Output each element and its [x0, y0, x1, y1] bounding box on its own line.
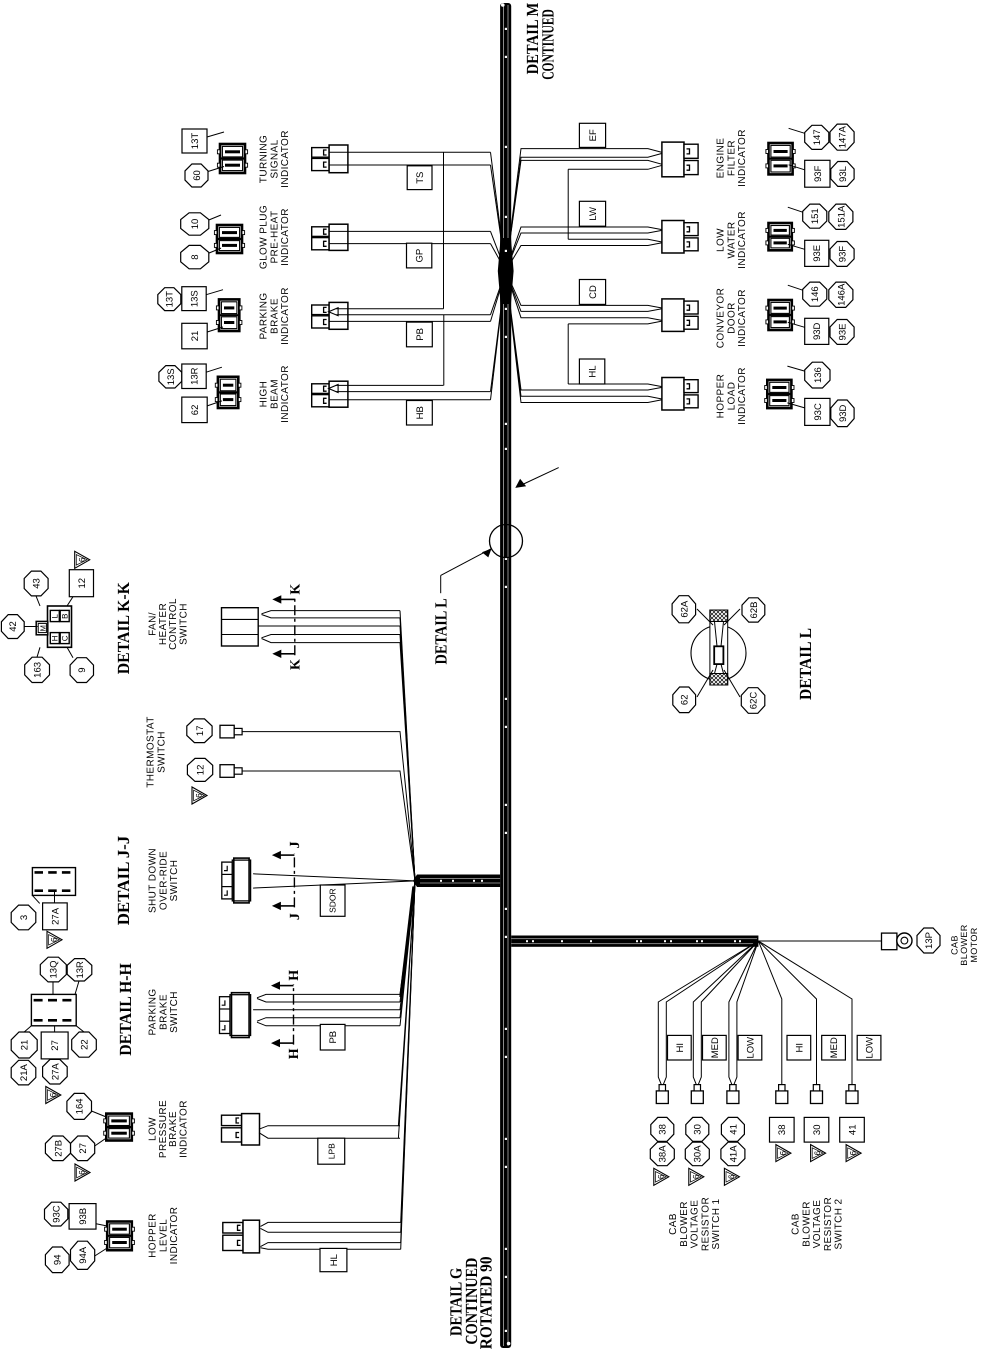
svg-text:LEVEL: LEVEL: [158, 1219, 169, 1252]
svg-text:OVER-RIDE: OVER-RIDE: [158, 851, 169, 910]
leader 22: [76, 1026, 84, 1032]
terminal sw2 LOW: [846, 1085, 858, 1104]
wire main harness trunk: [500, 3, 511, 1348]
box 38 (sw2): [770, 1117, 795, 1142]
box 93C: [805, 398, 830, 425]
leader 43: [36, 596, 40, 606]
svg-text:B: B: [61, 613, 70, 619]
label box MED (sw2 MED): [822, 1035, 846, 1060]
label shut down text: [148, 848, 180, 913]
warning triangle 6 (thermostat): [192, 787, 207, 804]
svg-text:27B: 27B: [53, 1140, 64, 1157]
svg-text:INDICATOR: INDICATOR: [280, 208, 291, 266]
terminal ring cab blower motor: [882, 933, 913, 950]
leader 42 to M: [24, 626, 37, 628]
octagon 17: [187, 719, 212, 743]
label DETAIL L pointer text: [432, 598, 451, 664]
svg-text:27A: 27A: [50, 907, 61, 925]
svg-text:6: 6: [849, 1150, 858, 1155]
connector low pressure brake lead: [222, 1114, 260, 1145]
svg-text:21: 21: [20, 1040, 31, 1051]
section marker H-H: [271, 969, 302, 1059]
leader 163: [37, 647, 40, 657]
connector parking brake switch: [220, 993, 251, 1038]
leader to 136: [787, 366, 804, 371]
leader 62B: [724, 609, 740, 625]
svg-text:CAB: CAB: [668, 1213, 679, 1235]
label cab blower motor text: [949, 924, 979, 966]
svg-text:SWITCH: SWITCH: [156, 731, 167, 773]
octagon 42: [1, 615, 24, 639]
box 62: [182, 397, 207, 423]
wire high beam lead 3: [329, 271, 506, 400]
trunk tape dots: [505, 28, 507, 1332]
svg-text:93E: 93E: [838, 324, 849, 341]
label parking brake ind text: [259, 287, 291, 345]
svg-text:93F: 93F: [838, 246, 849, 263]
label hopper level text: [148, 1207, 180, 1265]
wire SDOR tapered pair: [253, 874, 415, 888]
leader to 13R: [206, 367, 222, 372]
octagon 93D: [831, 400, 854, 427]
octagon 13S: [159, 366, 182, 388]
svg-text:164: 164: [75, 1098, 86, 1114]
connector hopper load lead: [662, 378, 698, 411]
svg-text:BLOWER: BLOWER: [801, 1201, 812, 1247]
svg-text:PRE-HEAT: PRE-HEAT: [269, 210, 280, 263]
leader 62: [697, 670, 713, 697]
wire link CD to HL: [567, 324, 569, 384]
svg-text:6: 6: [50, 937, 59, 942]
octagon 93F: [830, 242, 854, 267]
leader detail L: [441, 549, 492, 594]
svg-text:12: 12: [77, 578, 88, 589]
wire fan lead middle: [258, 626, 415, 881]
svg-text:TURNING: TURNING: [259, 135, 270, 183]
svg-text:EF: EF: [588, 129, 599, 141]
leader to 93C: [787, 403, 804, 408]
svg-text:94A: 94A: [78, 1246, 89, 1264]
svg-text:9: 9: [77, 667, 88, 672]
svg-text:RESISTOR: RESISTOR: [823, 1197, 834, 1251]
terminal sw2 HI: [776, 1085, 788, 1104]
wire hopper load lead 3: [506, 271, 664, 399]
wire cab blower sw1 HI: [658, 941, 758, 1085]
wire thermostat 17: [242, 732, 415, 881]
leader 94: [95, 1248, 108, 1256]
connector K-K switch block rear view: [36, 606, 71, 647]
svg-text:CONTINUED: CONTINUED: [539, 9, 558, 80]
wire hl pair 1: [261, 881, 416, 1232]
svg-text:38: 38: [658, 1124, 669, 1135]
svg-text:163: 163: [33, 662, 44, 678]
svg-text:6: 6: [656, 1174, 665, 1179]
svg-text:ROTATED 90: ROTATED 90: [477, 1257, 496, 1350]
connector engine filter lead: [662, 142, 698, 177]
label DETAIL L: [796, 628, 815, 700]
wire hopper load lead 2: [506, 271, 664, 390]
svg-text:DETAIL K-K: DETAIL K-K: [114, 581, 133, 674]
box 21: [182, 323, 207, 348]
label cab blower switch 1 text: [668, 1197, 722, 1251]
connector low water indicator (panel side): [766, 223, 794, 250]
svg-text:41: 41: [847, 1125, 858, 1136]
svg-text:TS: TS: [415, 172, 426, 184]
warning triangle 6 (K-K): [75, 551, 90, 568]
svg-text:6: 6: [195, 793, 204, 798]
octagon 146A: [829, 282, 853, 307]
leader 12: [67, 597, 73, 606]
label turning signal text: [259, 130, 291, 188]
leader to 93E: [788, 244, 805, 249]
box 30 (sw2): [804, 1117, 829, 1142]
svg-text:PARKING: PARKING: [148, 988, 159, 1035]
label box PB switch: [320, 1024, 345, 1050]
leader to 93D: [788, 322, 805, 327]
svg-text:DOOR: DOOR: [726, 302, 737, 334]
octagon 147A: [830, 124, 854, 150]
svg-text:13T: 13T: [165, 291, 176, 308]
svg-text:INDICATOR: INDICATOR: [169, 1207, 180, 1265]
label box LOW (sw1 LOW): [738, 1035, 762, 1060]
svg-text:HIGH: HIGH: [259, 381, 270, 408]
svg-text:60: 60: [192, 170, 203, 181]
wire low water lead 1: [506, 227, 664, 271]
label fan/heater text: [147, 598, 189, 650]
leader 62A: [697, 609, 713, 625]
box 13R: [182, 364, 206, 389]
svg-text:42: 42: [8, 621, 19, 632]
wire lpb pair: [259, 881, 415, 1138]
svg-text:12: 12: [196, 765, 207, 776]
leader to 60: [208, 167, 224, 172]
svg-text:43: 43: [32, 578, 43, 589]
svg-text:21: 21: [190, 331, 201, 342]
svg-text:HI: HI: [794, 1043, 805, 1053]
octagon 8: [181, 245, 209, 268]
octagon 41: [721, 1117, 744, 1141]
leader 13Q: [52, 982, 54, 995]
svg-text:J: J: [288, 841, 303, 848]
box 93D: [805, 318, 829, 344]
box 27 (H-H): [41, 1032, 68, 1059]
svg-text:INDICATOR: INDICATOR: [737, 289, 748, 347]
svg-text:SWITCH: SWITCH: [169, 991, 180, 1033]
leader to 8: [209, 248, 221, 253]
octagon 136: [805, 362, 830, 388]
wire parking brake ind linked pair with arrow: [329, 271, 506, 316]
wire conveyor door lead 1: [506, 271, 664, 308]
svg-text:BRAKE: BRAKE: [158, 994, 169, 1030]
svg-text:13R: 13R: [189, 367, 200, 385]
wire link PB to HB: [443, 315, 445, 386]
svg-text:CD: CD: [588, 285, 599, 299]
leader 62C: [724, 670, 740, 697]
svg-text:INDICATOR: INDICATOR: [280, 130, 291, 188]
svg-text:6: 6: [48, 1092, 57, 1097]
leader 9: [67, 647, 73, 657]
svg-text:147: 147: [812, 129, 823, 145]
svg-text:DETAIL J-J: DETAIL J-J: [114, 835, 133, 925]
svg-text:147A: 147A: [838, 125, 849, 148]
svg-text:13P: 13P: [924, 932, 935, 949]
svg-text:27A: 27A: [50, 1063, 61, 1081]
svg-text:HOPPER: HOPPER: [716, 374, 727, 419]
octagon 38: [651, 1117, 674, 1141]
wire engine filter lead 1: [506, 149, 664, 271]
box 13T: [182, 129, 207, 153]
svg-text:MOTOR: MOTOR: [969, 927, 979, 962]
svg-text:INDICATOR: INDICATOR: [737, 129, 748, 187]
octagon 27B: [45, 1136, 70, 1161]
warning triangle 6 (38): [654, 1168, 669, 1185]
wire glow plug lead 2: [329, 244, 506, 271]
svg-text:SWITCH: SWITCH: [169, 860, 180, 902]
octagon 62A: [672, 596, 696, 623]
svg-text:PRESSURE: PRESSURE: [158, 1100, 169, 1158]
label thermostat text: [146, 716, 168, 787]
svg-text:MED: MED: [829, 1037, 840, 1058]
svg-text:13S: 13S: [166, 368, 177, 385]
wire hl pair 2: [261, 881, 416, 1249]
svg-text:INDICATOR: INDICATOR: [737, 367, 748, 425]
svg-text:13S: 13S: [189, 290, 200, 307]
warning triangle 6 (sw2 41): [846, 1145, 861, 1162]
wire low water lead 4: [506, 242, 664, 271]
node trunk pinch bulge: [498, 238, 514, 304]
svg-text:INDICATOR: INDICATOR: [280, 365, 291, 423]
svg-text:BLOWER: BLOWER: [679, 1201, 690, 1247]
octagon 27A (H-H): [43, 1059, 68, 1084]
wire pbs pair 2: [257, 881, 415, 1026]
box 12: [69, 570, 93, 597]
svg-text:93L: 93L: [838, 166, 849, 182]
octagon 13R: [67, 959, 92, 981]
warning triangle 6 (H-H): [46, 1087, 61, 1104]
octagon 9: [70, 658, 93, 683]
label hopper load text: [716, 367, 748, 425]
terminal sw1 MED: [691, 1085, 703, 1104]
svg-text:SHUT DOWN: SHUT DOWN: [148, 848, 159, 913]
svg-text:HOPPER: HOPPER: [148, 1213, 159, 1258]
box 93F: [805, 160, 830, 187]
svg-text:GP: GP: [415, 249, 426, 263]
label DETAIL M CONTINUED: [523, 3, 558, 80]
svg-text:CAB: CAB: [791, 1213, 802, 1235]
terminal sw2 MED: [811, 1085, 823, 1104]
connector shut down over-ride switch: [222, 858, 251, 903]
wire cab blower sw2 HI: [758, 941, 781, 1085]
wire engine filter lead 3: [506, 160, 664, 271]
warning triangle 6 (J-J): [47, 931, 62, 948]
svg-text:6: 6: [691, 1174, 700, 1179]
svg-text:THERMOSTAT: THERMOSTAT: [146, 716, 157, 787]
connector turning signal indicator lead: [312, 145, 348, 173]
octagon 13T: [158, 288, 181, 311]
octagon 62B: [742, 598, 765, 622]
wire conveyor door link lead: [568, 321, 664, 324]
svg-text:M: M: [39, 625, 48, 632]
svg-text:146A: 146A: [836, 283, 847, 306]
component H-H switch rear (dashed): [31, 994, 76, 1025]
svg-text:27: 27: [78, 1143, 89, 1154]
box 27A (J-J): [43, 903, 68, 930]
wire glow plug lead 1: [329, 231, 506, 271]
svg-text:HI: HI: [675, 1043, 686, 1053]
label box SDOR: [320, 885, 345, 916]
svg-text:SWITCH 1: SWITCH 1: [711, 1198, 722, 1249]
svg-text:62C: 62C: [749, 692, 760, 710]
label glow plug text: [259, 205, 291, 269]
svg-text:FAN/: FAN/: [147, 612, 158, 636]
label box HL: [579, 359, 604, 384]
label turning signal indicator: [0, 1353, 1, 1354]
leader to 146: [788, 285, 803, 290]
label parking brake switch text: [148, 988, 180, 1035]
connector conveyor door indicator (panel side): [766, 300, 794, 330]
svg-text:H: H: [287, 1048, 302, 1059]
label box HI (sw2 HI): [787, 1035, 811, 1060]
octagon 62: [673, 687, 696, 713]
svg-text:LOW: LOW: [745, 1037, 756, 1059]
svg-text:13R: 13R: [75, 961, 86, 979]
wire turning signal lead 1: [329, 152, 506, 271]
svg-text:HL: HL: [329, 1254, 340, 1266]
label box GP: [407, 243, 432, 268]
svg-text:PB: PB: [415, 328, 426, 341]
svg-text:SWITCH 2: SWITCH 2: [834, 1198, 845, 1249]
octagon 163: [25, 657, 50, 682]
connector glow plug indicator lead: [312, 224, 348, 250]
terminal sw1 HI: [656, 1085, 668, 1104]
octagon 93C: [45, 1202, 68, 1226]
octagon 60: [185, 164, 208, 187]
node detail L circle on trunk: [490, 525, 523, 558]
wire branch bundle to J junction: [413, 875, 500, 888]
svg-text:RESISTOR: RESISTOR: [700, 1197, 711, 1251]
warning triangle 6 (30): [689, 1168, 704, 1185]
svg-text:136: 136: [813, 367, 824, 383]
leader to 62: [207, 401, 222, 406]
octagon 147: [805, 125, 829, 149]
wire parking brake ind lead 3: [329, 271, 506, 321]
wire bundle heavy segment: [401, 887, 414, 998]
connector lpb indicator (panel side): [104, 1114, 135, 1141]
label box HI (sw1 HI): [668, 1035, 692, 1060]
octagon 151A: [829, 204, 853, 229]
svg-text:93F: 93F: [813, 165, 824, 182]
svg-text:BEAM: BEAM: [269, 379, 280, 409]
terminal thermostat 12: [220, 765, 242, 778]
wire thermostat 12: [242, 771, 415, 881]
svg-text:LPB: LPB: [326, 1143, 336, 1159]
svg-text:151: 151: [810, 208, 821, 224]
label DETAIL J-J: [114, 835, 133, 925]
leader 27A to J-J rect: [54, 891, 56, 903]
box 41 (sw2): [840, 1117, 865, 1142]
svg-text:LOAD: LOAD: [726, 382, 737, 411]
svg-text:27: 27: [50, 1040, 61, 1051]
svg-text:DETAIL H-H: DETAIL H-H: [116, 963, 135, 1056]
octagon 93L: [831, 162, 854, 187]
component J-J switch rear (dashed): [32, 868, 75, 896]
octagon 27 (lpb): [71, 1136, 95, 1161]
svg-text:62A: 62A: [679, 600, 690, 618]
box 93E: [805, 240, 829, 266]
svg-text:93D: 93D: [812, 322, 823, 340]
leader 13R: [75, 981, 79, 994]
octagon 164: [67, 1093, 92, 1119]
connector parking brake ind indicator lead: [312, 302, 348, 329]
svg-text:CAB: CAB: [949, 935, 959, 955]
svg-text:6: 6: [77, 557, 86, 562]
svg-text:8: 8: [190, 254, 201, 259]
wire engine filter lead 2: [506, 153, 664, 271]
svg-text:6: 6: [78, 1170, 87, 1175]
label box MED (sw1 MED): [703, 1035, 727, 1060]
connector fan/heater switch: [222, 608, 259, 646]
wire low water link lead: [568, 239, 664, 242]
label box LW: [579, 201, 605, 226]
svg-text:21A: 21A: [19, 1063, 30, 1081]
svg-text:93B: 93B: [78, 1208, 89, 1225]
svg-text:17: 17: [195, 726, 206, 737]
connector high beam indicator (panel side): [215, 377, 241, 408]
octagon 30A: [685, 1142, 709, 1166]
svg-text:13T: 13T: [190, 133, 201, 150]
wire cab blower branch trunk: [511, 936, 758, 947]
octagon 62C: [741, 688, 765, 714]
svg-text:DETAIL L: DETAIL L: [432, 598, 451, 664]
warning triangle 6 (sw2 38): [776, 1145, 791, 1162]
wire link TS to PB: [443, 152, 445, 308]
octagon 93E: [830, 320, 854, 345]
svg-text:HL: HL: [588, 365, 599, 377]
wire pbs pair 1: [257, 881, 415, 1002]
warning triangle 6 (41): [724, 1168, 739, 1185]
svg-text:41A: 41A: [728, 1145, 739, 1163]
connector hopper load indicator (panel side): [765, 380, 794, 408]
svg-text:GLOW PLUG: GLOW PLUG: [259, 205, 270, 269]
svg-text:FILTER: FILTER: [726, 140, 737, 176]
leader to 21: [207, 327, 223, 332]
svg-text:INDICATOR: INDICATOR: [737, 211, 748, 269]
label high beam text: [259, 365, 291, 423]
connector engine filter indicator (panel side): [766, 143, 795, 174]
warning triangle 6 (lpb): [75, 1164, 90, 1181]
wire high beam linked pair with arrow: [329, 271, 506, 393]
connector high beam indicator lead: [312, 381, 348, 407]
leader 27 lpb: [95, 1138, 107, 1146]
svg-text:BRAKE: BRAKE: [269, 298, 280, 334]
label cab blower switch 2 text: [791, 1197, 845, 1251]
wire conveyor door lead 2: [506, 271, 664, 311]
connector turning signal indicator (panel side): [217, 144, 247, 173]
svg-text:HEATER: HEATER: [158, 603, 169, 645]
wire hopper load link lead: [568, 384, 664, 387]
wire fan lead pair 1: [262, 611, 416, 881]
connector hopper level indicator (panel side): [105, 1222, 135, 1251]
svg-text:H: H: [51, 635, 60, 641]
svg-text:151A: 151A: [836, 205, 847, 228]
octagon 94: [45, 1247, 69, 1273]
connector glow plug indicator (panel side): [214, 225, 244, 253]
box 13S: [182, 287, 206, 311]
leader 27: [54, 1026, 56, 1032]
label DETAIL K-K: [114, 581, 133, 674]
leader to 10: [209, 215, 221, 220]
connector conveyor door lead: [662, 299, 698, 332]
